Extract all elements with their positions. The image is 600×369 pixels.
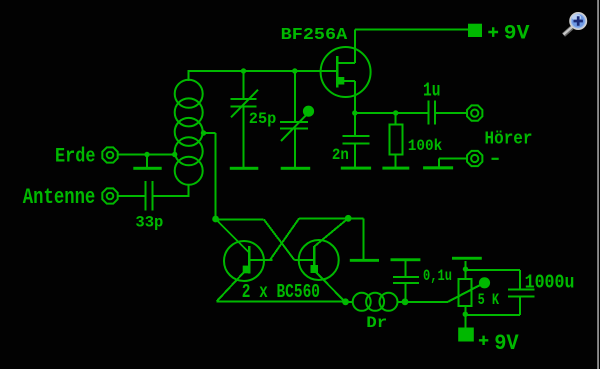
svg-text:BF256A: BF256A [281,26,348,45]
svg-text:Antenne: Antenne [23,185,96,210]
svg-text:1u: 1u [423,80,441,102]
svg-text:100k: 100k [408,137,443,155]
svg-text:2 x BC560: 2 x BC560 [242,281,320,303]
svg-text:1000u: 1000u [525,271,575,293]
svg-text:2n: 2n [332,146,349,164]
svg-text:5 K: 5 K [478,291,500,309]
svg-text:9V: 9V [504,23,530,46]
svg-text:33p: 33p [135,213,163,231]
svg-text:25p: 25p [249,110,276,128]
svg-text:Erde: Erde [55,146,96,169]
svg-text:0,1u: 0,1u [423,267,452,285]
svg-text:9V: 9V [494,330,519,356]
svg-text:Dr: Dr [366,314,387,332]
svg-text:Hörer: Hörer [485,129,533,149]
